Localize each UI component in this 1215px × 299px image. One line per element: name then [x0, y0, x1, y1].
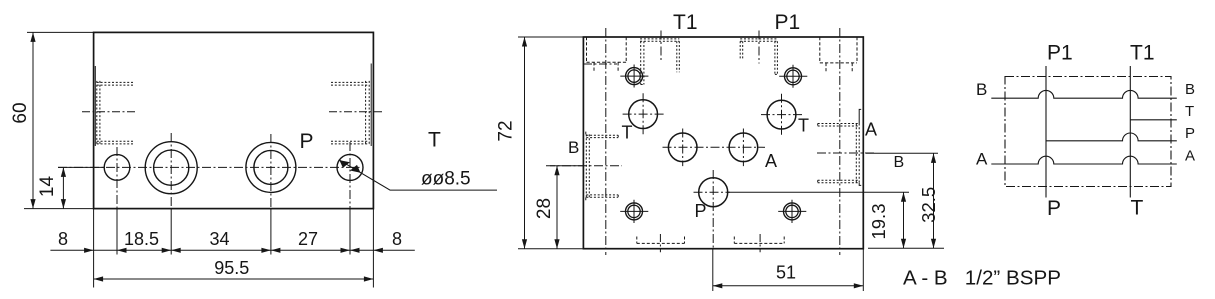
- slot A top-left dashed: [587, 37, 627, 62]
- P1 vertical line: [1045, 66, 1047, 198]
- block outline top view: [583, 37, 863, 249]
- arrows 51: [713, 283, 723, 288]
- dim 72 extension top: [518, 36, 583, 38]
- arrows 14: [61, 167, 66, 177]
- svg-text:T: T: [1185, 103, 1194, 120]
- left hidden pocket top bar: [97, 82, 135, 85]
- arrows 32.5: [931, 153, 936, 163]
- svg-text:A: A: [765, 151, 777, 171]
- P port circle: [699, 178, 728, 207]
- dim 32.5 line: [933, 153, 935, 248]
- dim 28 line: [556, 166, 558, 249]
- svg-text:P1: P1: [1047, 42, 1073, 65]
- dim 72 extension bottom: [518, 248, 583, 250]
- left side pocket top bar: [586, 135, 618, 137]
- left side pocket vertical dotted lines: [586, 134, 589, 197]
- vertical centerline left column: [605, 28, 607, 255]
- slot B left legs: [641, 41, 644, 84]
- dim line row 1: [50, 249, 414, 251]
- hole 1 circle: [104, 155, 130, 181]
- dim 28 extension: [550, 165, 583, 167]
- P line with bump: [1046, 133, 1177, 141]
- svg-text:72: 72: [496, 120, 517, 141]
- svg-text:A: A: [976, 150, 988, 169]
- arrows 72: [522, 37, 527, 47]
- svg-text:T: T: [798, 116, 809, 136]
- A extension line right: [866, 152, 938, 154]
- bolt hole top-right: [785, 68, 802, 85]
- hole 3 centerline vertical: [270, 134, 272, 209]
- svg-text:T: T: [622, 123, 633, 143]
- T1 vertical line: [1129, 66, 1131, 198]
- short centerline T1 slot: [660, 31, 662, 61]
- left pocket centerline: [82, 111, 137, 113]
- right side pocket bottom bar: [818, 180, 860, 183]
- left side pocket bottom bar: [586, 195, 618, 197]
- left hidden pocket vertical dotted lines: [97, 81, 100, 145]
- slot B double bar: [640, 39, 679, 41]
- svg-text:60: 60: [10, 102, 31, 123]
- arrows 60: [30, 32, 35, 42]
- B port centerline: [546, 165, 622, 167]
- bolt hole bottom-left: [626, 203, 643, 220]
- leader arrowhead 1: [339, 160, 350, 168]
- A port right circle: [729, 133, 758, 162]
- slot C double bar: [740, 39, 777, 41]
- svg-text:B: B: [568, 138, 579, 157]
- svg-text:P: P: [1047, 197, 1061, 220]
- svg-text:T: T: [428, 129, 441, 152]
- schematic dashed box: [1005, 77, 1171, 187]
- svg-text:51: 51: [776, 263, 796, 283]
- A port centerline right: [817, 152, 876, 154]
- T port right circle: [767, 100, 796, 129]
- right side pocket vertical dotted lines: [856, 124, 859, 183]
- svg-text:14: 14: [37, 176, 58, 198]
- svg-text:øø8.5: øø8.5: [421, 169, 471, 190]
- svg-text:P: P: [300, 130, 314, 153]
- right hidden pocket vertical dotted lines: [366, 81, 370, 145]
- bottom tab 2 dashed: [734, 237, 784, 244]
- svg-text:32.5: 32.5: [918, 187, 939, 223]
- svg-text:19.3: 19.3: [868, 203, 889, 239]
- svg-text:A: A: [865, 120, 877, 140]
- svg-text:T1: T1: [673, 11, 698, 34]
- bottom extension lines long: [94, 209, 374, 288]
- hole 1 centerline vertical: [116, 147, 118, 209]
- bottom tab 1 tick: [659, 234, 661, 252]
- ext 51 left: [712, 249, 714, 291]
- leader arrowhead 2: [350, 165, 361, 173]
- A ports connecting centerline: [663, 146, 766, 148]
- dim 51 line: [713, 285, 864, 287]
- dim 14 extension: [58, 166, 104, 168]
- svg-text:34: 34: [209, 229, 229, 249]
- right hidden pocket bracket: [370, 64, 372, 147]
- P extension line right: [728, 191, 909, 193]
- arrows 28: [554, 166, 559, 176]
- T port left circle: [629, 100, 658, 129]
- A line with bumps: [991, 156, 1177, 164]
- dim 60 extension bottom: [24, 208, 94, 210]
- slot A ticks: [594, 62, 618, 71]
- left hidden pocket bottom bar: [97, 141, 135, 144]
- A port left circle: [668, 133, 697, 162]
- right side pocket bracket: [859, 109, 861, 185]
- dim 19.3 line: [903, 192, 905, 248]
- arrows 95.5: [94, 276, 104, 281]
- dim 60 extension top: [27, 31, 94, 33]
- svg-text:P1: P1: [775, 11, 801, 34]
- svg-text:95.5: 95.5: [214, 258, 249, 278]
- bottom tab 2 tick: [759, 234, 761, 252]
- arrows row1: [30, 32, 383, 281]
- right hidden pocket top bar: [331, 82, 369, 85]
- dim 72 line: [524, 37, 526, 249]
- svg-text:8: 8: [58, 229, 68, 249]
- svg-text:8: 8: [392, 229, 402, 249]
- svg-text:B: B: [976, 80, 987, 99]
- left side pocket bracket steps: [585, 132, 587, 201]
- slot D ticks: [826, 63, 852, 73]
- bottom extension lines short: [117, 209, 350, 255]
- slot A side-hole centerline: [584, 63, 617, 65]
- hole 3 circles: [246, 142, 296, 192]
- hole 4 circle: [337, 154, 363, 180]
- bottom tab 1 dashed: [637, 237, 685, 244]
- hole 2 centerline vertical: [170, 133, 172, 209]
- dim line 95.5: [94, 278, 374, 280]
- svg-text:B: B: [1185, 81, 1195, 98]
- slot C left legs: [740, 41, 743, 59]
- right hidden pocket bottom bar: [331, 141, 369, 144]
- right pocket centerline: [329, 111, 384, 113]
- vertical centerline right column: [839, 28, 841, 255]
- svg-text:P: P: [1185, 125, 1195, 142]
- main hole centerline: [58, 166, 360, 168]
- bolt hole bottom-right: [784, 203, 801, 220]
- bolt hole top-left: [626, 68, 643, 85]
- svg-text:T1: T1: [1130, 42, 1155, 65]
- dim 60 line: [32, 32, 34, 208]
- ext 51 right: [862, 249, 864, 291]
- slot B right legs: [677, 41, 680, 72]
- T line: [1130, 119, 1177, 121]
- left hidden pocket bracket: [94, 66, 96, 146]
- right side pocket top bar: [818, 124, 860, 127]
- svg-text:18.5: 18.5: [124, 229, 159, 249]
- hole 4 centerline vertical: [349, 142, 351, 209]
- svg-text:A: A: [1185, 148, 1195, 165]
- slot D P1 dashed: [820, 37, 857, 63]
- short centerline P1 slot mirror: [758, 31, 760, 64]
- block outline front view: [94, 32, 374, 208]
- svg-text:A - B 1/2” BSPP: A - B 1/2” BSPP: [903, 267, 1061, 290]
- dim 14 line: [62, 167, 64, 208]
- hole 2 circles: [145, 142, 197, 194]
- B line with bumps: [991, 90, 1177, 98]
- slot C right legs: [775, 41, 778, 74]
- arrows 19.3: [901, 192, 906, 202]
- leader line for hole 4: [339, 160, 497, 190]
- svg-text:B: B: [894, 154, 905, 171]
- svg-text:28: 28: [534, 198, 555, 219]
- bottom extension right: [868, 247, 944, 249]
- svg-text:P: P: [695, 201, 707, 221]
- svg-text:T: T: [1131, 197, 1144, 220]
- svg-text:27: 27: [298, 229, 318, 249]
